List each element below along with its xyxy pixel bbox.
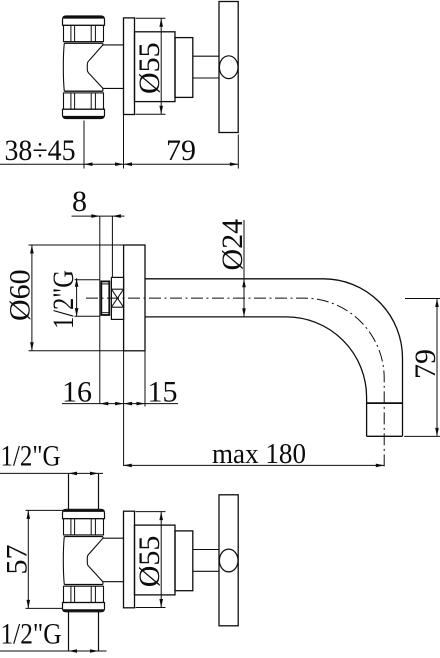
16 / 15 dim	[62, 403, 178, 405]
8 dim	[72, 215, 125, 217]
57 dim	[26, 509, 64, 511]
svg-text:79: 79	[409, 349, 440, 379]
svg-text:15: 15	[148, 375, 178, 408]
spout tube outline	[145, 279, 403, 437]
79 right dim	[405, 298, 440, 300]
svg-text:38÷45: 38÷45	[5, 134, 76, 167]
ext lines	[83, 121, 85, 169]
svg-text:1/2"G: 1/2"G	[48, 270, 80, 329]
1/2G bottom dim	[0, 650, 107, 652]
max180 dim	[123, 464, 384, 466]
svg-text:16: 16	[62, 375, 92, 408]
dia24 dim	[243, 220, 245, 317]
dims middle	[29, 216, 440, 466]
dim line	[0, 163, 238, 165]
svg-text:57: 57	[1, 545, 34, 575]
svg-text:Ø60: Ø60	[4, 269, 37, 321]
pipes	[68, 473, 70, 509]
wall plate	[124, 245, 145, 351]
svg-text:8: 8	[72, 185, 87, 218]
dia60 dim	[29, 244, 124, 246]
1/2G top dim	[0, 472, 103, 474]
svg-text:1/2"G: 1/2"G	[1, 440, 61, 473]
svg-text:79: 79	[166, 134, 196, 167]
svg-text:max 180: max 180	[212, 438, 306, 470]
svg-text:1/2"G: 1/2"G	[1, 617, 62, 650]
centerline	[86, 298, 384, 467]
1/2G small dim	[75, 279, 101, 281]
nipple	[101, 281, 109, 315]
X-block	[111, 277, 123, 319]
svg-text:Ø24: Ø24	[216, 219, 249, 271]
